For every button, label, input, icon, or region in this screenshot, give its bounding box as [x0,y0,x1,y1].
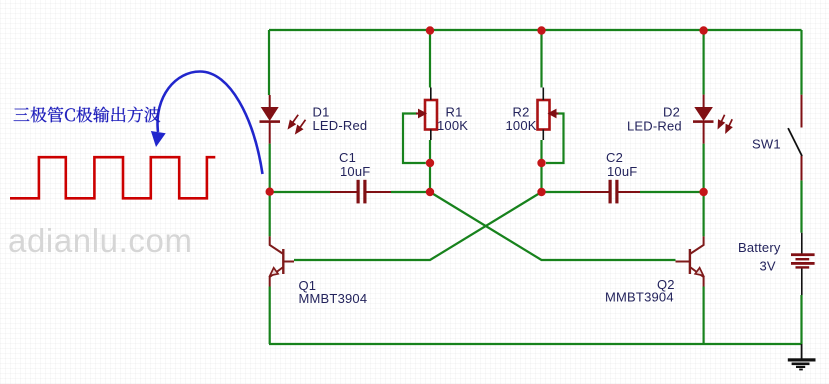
svg-text:adianlu.com: adianlu.com [8,222,193,259]
svg-text:C1: C1 [339,150,356,165]
svg-text:D2: D2 [663,105,680,120]
svg-text:LED-Red: LED-Red [627,119,682,134]
svg-text:100K: 100K [506,118,537,133]
svg-text:10uF: 10uF [340,164,370,179]
svg-text:3V: 3V [760,259,776,274]
svg-text:SW1: SW1 [752,137,781,152]
svg-text:LED-Red: LED-Red [313,118,368,133]
svg-text:100K: 100K [437,118,468,133]
svg-text:MMBT3904: MMBT3904 [299,291,368,306]
svg-text:Battery: Battery [738,240,781,255]
svg-text:10uF: 10uF [607,164,637,179]
svg-text:MMBT3904: MMBT3904 [605,290,674,305]
svg-text:C2: C2 [606,150,623,165]
